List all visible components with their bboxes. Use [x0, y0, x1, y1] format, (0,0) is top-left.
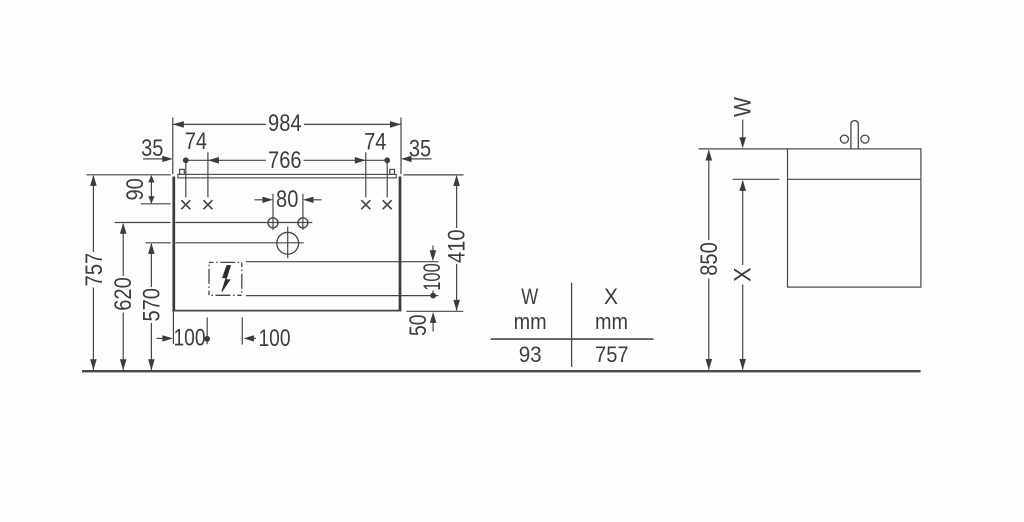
dim 90 line — [150, 176, 152, 204]
svg-text:W: W — [730, 97, 757, 117]
dim 620 line — [122, 224, 124, 276]
dim 984 extension left — [172, 118, 174, 175]
dim 100 bottom-1 arrow — [157, 337, 163, 339]
faucet hole left tick — [272, 194, 274, 230]
electrical connection dashed box — [209, 262, 242, 295]
extension line 620 — [115, 222, 171, 224]
svg-text:mm: mm — [514, 309, 547, 334]
dim 80 right arrow — [314, 199, 322, 201]
extension line countertop left — [87, 174, 171, 176]
svg-text:410: 410 — [444, 229, 471, 263]
extension line 90 bottom — [141, 203, 171, 205]
svg-text:570: 570 — [139, 288, 166, 322]
extension line X top — [733, 178, 780, 180]
svg-text:766: 766 — [268, 147, 302, 174]
dim 35 left arrow — [143, 158, 163, 160]
dim 410 line — [456, 176, 458, 228]
svg-text:35: 35 — [141, 135, 163, 162]
svg-text:X: X — [604, 284, 618, 309]
svg-text:50: 50 — [405, 314, 432, 336]
dim 100 bottom-2 line — [241, 318, 243, 345]
extension line 570 — [146, 242, 171, 244]
faucet hole right circle — [298, 218, 308, 228]
screw mark x2 — [203, 200, 212, 209]
extension line 410 bottom — [406, 310, 463, 312]
bottom line below cabinet left — [172, 312, 174, 345]
svg-text:100: 100 — [419, 263, 446, 291]
svg-text:74: 74 — [185, 128, 207, 155]
svg-text:93: 93 — [519, 342, 542, 367]
dim 100 right dot — [430, 293, 436, 299]
drawer line B / drain crosshair horizontal — [176, 242, 304, 244]
svg-text:W: W — [521, 284, 538, 309]
dim 766 line — [186, 159, 266, 161]
svg-text:X: X — [730, 267, 757, 282]
side view cabinet box — [788, 149, 921, 287]
dim 80 left arrow — [255, 199, 263, 201]
dim 850 line — [708, 151, 710, 240]
table vertical line — [571, 283, 573, 367]
svg-text:74: 74 — [364, 128, 386, 155]
faucet hole right tick — [302, 194, 304, 230]
table horizontal line — [491, 338, 654, 340]
svg-text:850: 850 — [696, 242, 723, 276]
svg-text:mm: mm — [595, 309, 628, 334]
screw mark x1 — [181, 200, 190, 209]
dim 570 line — [150, 244, 152, 287]
screw line far-right — [386, 158, 388, 198]
drawer line A — [176, 222, 313, 224]
dim 100 bottom-1 line with dot — [206, 318, 208, 345]
screw mark x3 — [361, 200, 370, 209]
side view faucet tap — [851, 121, 858, 149]
extension line 410 top — [404, 174, 464, 176]
side view top extension line — [699, 148, 788, 150]
dim 35 right arrow — [412, 158, 432, 160]
dim 100 right stub — [432, 291, 434, 296]
screw line far-left — [185, 158, 187, 198]
lightning bolt symbol — [222, 266, 231, 292]
siphon line C — [246, 261, 438, 263]
drain circle — [277, 232, 299, 254]
side view basin bottom line — [788, 178, 921, 180]
cabinet left side panel — [172, 177, 175, 312]
floor line — [82, 370, 921, 372]
dim 984 line — [173, 123, 266, 125]
svg-text:984: 984 — [268, 110, 302, 137]
dim 100 bottom-2 arrow — [254, 337, 256, 339]
dim 100 right arrow — [432, 246, 434, 252]
faucet handle circle right — [861, 135, 869, 143]
dim X line — [742, 181, 744, 265]
svg-text:80: 80 — [276, 186, 298, 213]
screw mark x4 — [383, 200, 392, 209]
svg-text:757: 757 — [81, 253, 108, 287]
dim 50 arrow — [432, 323, 434, 332]
screw dot far-left — [183, 157, 189, 163]
wall bracket clip right — [390, 169, 395, 174]
extension line 766 left — [207, 152, 209, 197]
dim 984 extension right — [400, 118, 402, 175]
svg-text:100: 100 — [259, 325, 291, 352]
dim W arrow — [742, 120, 744, 138]
cabinet right side panel — [399, 177, 402, 312]
siphon line D — [246, 295, 438, 297]
extension line 766 right — [365, 152, 367, 197]
faucet handle circle left — [840, 135, 848, 143]
svg-text:35: 35 — [409, 136, 431, 163]
svg-text:620: 620 — [110, 277, 137, 311]
cabinet bottom edge — [172, 310, 401, 312]
screw dot far-right — [384, 157, 390, 163]
faucet hole left circle — [268, 218, 278, 228]
washbasin countertop slab — [178, 174, 396, 178]
wall bracket clip left — [180, 169, 185, 174]
drain crosshair vertical — [287, 227, 289, 259]
svg-text:90: 90 — [122, 178, 149, 200]
dim 757 line — [92, 176, 94, 252]
svg-text:757: 757 — [595, 342, 629, 367]
svg-text:100: 100 — [174, 324, 206, 351]
